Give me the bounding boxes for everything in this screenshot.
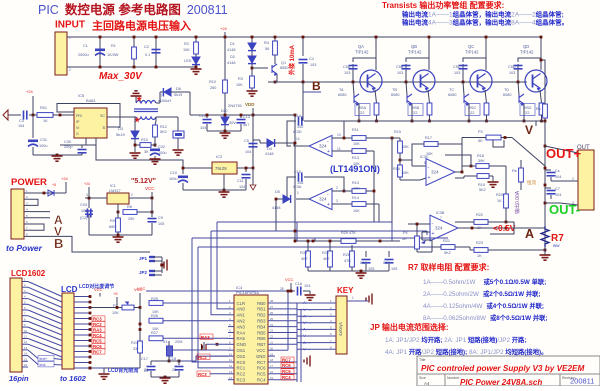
svg-text:10K: 10K [402, 171, 409, 175]
svg-text:C4: C4 [309, 57, 314, 61]
svg-text:TC: TC [449, 88, 454, 92]
capacitor C5C [462, 64, 464, 82]
svg-text:+: + [327, 149, 330, 155]
svg-text:TB: TB [392, 88, 397, 92]
resistor R8 250 [117, 204, 119, 212]
capacitor C3 [8, 114, 21, 116]
resistor R23 1K [474, 248, 488, 253]
svg-text:26: 26 [270, 311, 274, 315]
svg-text:105: 105 [368, 267, 374, 271]
svg-text:10K: 10K [353, 209, 360, 213]
resistor R19 5K2 [455, 177, 464, 179]
svg-text:INPUT: INPUT [55, 20, 85, 31]
resistor R13 10K [352, 149, 366, 154]
capacitor C7 104 [545, 187, 551, 189]
svg-text:PIC数控电源 参考电路图200811: PIC数控电源 参考电路图200811 [38, 2, 228, 17]
svg-text:104: 104 [555, 193, 561, 197]
svg-text:RC3: RC3 [237, 378, 246, 383]
wire output column [544, 121, 546, 255]
svg-text:Number: Number [447, 376, 460, 380]
svg-text:14: 14 [24, 352, 28, 356]
wire stub below B [302, 82, 304, 92]
label RC3 net [197, 371, 210, 377]
wire PIC right vertical bus [296, 303, 298, 382]
svg-text:12: 12 [229, 364, 233, 368]
resistor R21 5K2 [441, 245, 455, 250]
svg-text:3K: 3K [144, 150, 149, 154]
title block frame [417, 356, 600, 386]
svg-text:RC5: RC5 [93, 339, 102, 344]
svg-text:IC3C: IC3C [420, 155, 429, 159]
svg-text:1: 1 [352, 296, 354, 300]
svg-text:IP: IP [76, 120, 80, 124]
svg-text:R10: R10 [141, 138, 148, 142]
svg-text:PIC Power 24V8A.sch: PIC Power 24V8A.sch [460, 378, 542, 386]
resistor Rs sense [519, 168, 524, 182]
svg-text:A+→: A+→ [303, 313, 312, 318]
svg-text:LCD1602: LCD1602 [11, 269, 46, 278]
svg-text:D1: D1 [230, 42, 235, 46]
svg-text:200811: 200811 [570, 377, 594, 386]
svg-text:R13: R13 [352, 181, 359, 185]
svg-text:10K: 10K [353, 187, 360, 191]
wire A node [490, 222, 514, 234]
svg-text:R01: R01 [40, 106, 47, 110]
svg-text:C9: C9 [158, 216, 163, 220]
wire lcd bottom [74, 367, 104, 369]
ground transformer top [135, 96, 137, 102]
capacitor C14 feedback [287, 121, 296, 146]
svg-text:260: 260 [210, 86, 216, 90]
resistor R30 4K7 [306, 251, 311, 267]
svg-text:C31: C31 [40, 138, 47, 142]
svg-text:VI: VI [76, 126, 79, 130]
svg-text:RC5: RC5 [257, 372, 266, 377]
bus wire 4 [198, 246, 456, 248]
svg-text:25: 25 [270, 317, 274, 321]
svg-text:4148: 4148 [227, 61, 235, 65]
svg-text:104: 104 [304, 284, 310, 288]
svg-text:+: + [327, 202, 330, 208]
svg-text:10K: 10K [183, 48, 190, 52]
svg-text:RC1: RC1 [237, 366, 246, 371]
diode D5 output [296, 198, 309, 200]
svg-text:5K2: 5K2 [444, 251, 451, 255]
svg-text:RC2: RC2 [237, 372, 246, 377]
svg-text:C16: C16 [295, 282, 302, 286]
diode D1 4148 [251, 37, 253, 43]
svg-text:RB4: RB4 [257, 324, 266, 329]
capacitor C4 [302, 37, 304, 56]
capacitor small ra3 [203, 342, 205, 350]
wires PIC rc pins [275, 361, 297, 363]
capacitor C18 [178, 361, 180, 365]
svg-text:IC5: IC5 [78, 93, 85, 98]
resistor R14 10K [352, 202, 366, 207]
svg-text:106: 106 [81, 209, 87, 213]
svg-text:102: 102 [297, 125, 303, 129]
svg-text:RC6: RC6 [282, 363, 291, 368]
svg-text:C5D: C5D [508, 65, 516, 69]
svg-text:2: 2 [131, 193, 133, 197]
svg-text:OS2: OS2 [237, 354, 246, 359]
svg-text:AN2: AN2 [237, 319, 246, 324]
svg-text:输出电流1A——1组晶体管，输出电流2A——2组晶体管;: 输出电流1A——1组晶体管，输出电流2A——2组晶体管; [402, 10, 564, 19]
svg-text:C14: C14 [294, 114, 301, 118]
svg-text:6080: 6080 [391, 93, 399, 97]
svg-text:C10: C10 [170, 171, 177, 175]
svg-text:22: 22 [270, 335, 274, 339]
svg-text:C19: C19 [360, 261, 367, 265]
svg-text:22: 22 [144, 368, 148, 372]
svg-text:+5: +5 [113, 291, 118, 296]
capacitor C20 [388, 251, 390, 257]
transistor QA TIP142 [375, 37, 377, 70]
svg-text:2000u: 2000u [78, 53, 89, 57]
svg-text:103: 103 [310, 63, 316, 67]
svg-text:RC7: RC7 [257, 360, 266, 365]
svg-text:RC4: RC4 [93, 333, 102, 338]
resistor R28 47K [350, 251, 355, 267]
svg-text:R9: R9 [110, 219, 115, 223]
svg-text:V-→: V-→ [303, 346, 311, 351]
svg-text:C13: C13 [243, 115, 250, 119]
svg-text:VDD: VDD [245, 102, 255, 107]
input arrow left [3, 110, 8, 120]
svg-text:104: 104 [245, 150, 251, 154]
svg-text:B: B [54, 236, 63, 251]
svg-text:V+←: V+← [303, 307, 312, 312]
svg-text:R8: R8 [127, 205, 132, 209]
ground key right [366, 294, 372, 305]
svg-text:C11: C11 [237, 179, 244, 183]
svg-text:RC2: RC2 [198, 355, 207, 360]
wire bottom input rail [67, 66, 196, 68]
svg-text:KEY: KEY [337, 286, 354, 295]
wire left column from B [302, 92, 304, 121]
capacitor C16 pic [298, 287, 301, 296]
svg-text:D5: D5 [275, 190, 280, 194]
svg-text:"5.12V": "5.12V" [131, 178, 156, 185]
capacitor Cs 104 [545, 169, 551, 171]
svg-text:Rs: Rs [512, 169, 517, 173]
svg-text:1K: 1K [497, 199, 502, 203]
svg-text:C2: C2 [144, 45, 149, 49]
svg-text:103: 103 [397, 71, 403, 75]
resistor R7 zigzag [541, 226, 549, 247]
svg-text:5K: 5K [478, 139, 483, 143]
svg-text:VCC: VCC [285, 277, 294, 282]
ground output [540, 255, 551, 260]
capacitor C03 input [88, 198, 90, 208]
resistor R12 5K2 [155, 117, 157, 121]
svg-text:RB6: RB6 [257, 336, 266, 341]
svg-text:JP1: JP1 [139, 256, 148, 261]
svg-text:12: 12 [24, 340, 28, 344]
svg-text:P3: P3 [478, 130, 483, 134]
svg-text:C7: C7 [555, 187, 560, 191]
svg-text:2: 2 [69, 68, 71, 72]
svg-text:13: 13 [24, 346, 28, 350]
wire zener ground bus [207, 130, 241, 132]
svg-text:QD: QD [523, 44, 529, 49]
capacitor C02 100u [154, 137, 156, 147]
ground IC5 section [56, 154, 59, 157]
svg-text:R21: R21 [443, 239, 450, 243]
ground lcd [99, 374, 110, 379]
svg-text:324: 324 [435, 226, 443, 231]
transformer T1 [134, 101, 158, 120]
wire LM317 in/out [85, 197, 107, 199]
resistor R01 horizontal [29, 114, 37, 116]
svg-text:C5A: C5A [343, 65, 351, 69]
svg-text:1A: JP1/JP2 均开路; 2A: JP1 短路(接地: 1A: JP1/JP2 均开路; 2A: JP1 短路(接地)/JP2 开路; [385, 335, 526, 344]
wire transformer primary [107, 116, 136, 118]
svg-text:11: 11 [24, 335, 27, 339]
svg-text:B: B [312, 79, 321, 93]
svg-text:1K: 1K [477, 226, 482, 230]
svg-text:5K: 5K [402, 237, 407, 241]
svg-text:1K: 1K [43, 119, 48, 123]
svg-text:R16: R16 [393, 167, 400, 171]
svg-text:8A——0.0625ohm/8W或8个0.5Ω/1W 并联;: 8A——0.0625ohm/8W或8个0.5Ω/1W 并联; [423, 313, 548, 322]
connector to1602 [62, 293, 74, 369]
LED D-LED [195, 54, 197, 57]
svg-text:47K: 47K [344, 259, 351, 263]
svg-text:SC: SC [100, 114, 105, 118]
svg-text:A-→: A-→ [303, 340, 311, 345]
resistor R3 [250, 76, 255, 88]
svg-text:+24: +24 [61, 176, 69, 181]
ground zener row [220, 133, 231, 138]
svg-text:R2: R2 [184, 42, 189, 46]
svg-text:CLR: CLR [237, 301, 246, 306]
svg-text:2: 2 [336, 186, 338, 190]
svg-text:ww: ww [553, 243, 560, 248]
svg-text:12: 12 [337, 147, 341, 151]
svg-text:21: 21 [270, 341, 274, 345]
svg-text:RB0: RB0 [257, 301, 266, 306]
connector KEY 8pin [336, 296, 347, 354]
svg-text:104: 104 [555, 175, 561, 179]
wires LCD fan [22, 281, 28, 283]
ground D3 [130, 153, 141, 158]
svg-text:C12: C12 [199, 114, 206, 118]
svg-text:RC4: RC4 [257, 378, 266, 383]
svg-text:30V: 30V [229, 121, 236, 125]
svg-text:23: 23 [270, 329, 274, 333]
svg-text:GND: GND [237, 342, 247, 347]
svg-text:A: A [525, 227, 534, 241]
wire IC3C output [455, 171, 462, 173]
svg-text:105: 105 [391, 267, 397, 271]
wire R11 input feed [351, 190, 353, 192]
svg-text:A-←: A-← [303, 327, 311, 332]
port VSS arrow [252, 168, 254, 185]
resistor R11 10K [352, 136, 366, 141]
svg-text:R30: R30 [300, 251, 307, 255]
svg-text:+24: +24 [220, 26, 228, 31]
svg-text:13: 13 [229, 370, 233, 374]
svg-text:20: 20 [270, 346, 274, 350]
svg-text:RC4: RC4 [282, 375, 291, 380]
svg-text:16: 16 [270, 370, 274, 374]
capacitor C15 [287, 177, 296, 199]
labels led+/led- [38, 356, 54, 361]
svg-text:QB: QB [411, 44, 417, 49]
svg-text:V: V [525, 123, 533, 137]
svg-text:QC: QC [468, 44, 474, 49]
ground R19 [488, 182, 499, 187]
svg-text:OUT+: OUT+ [546, 146, 581, 161]
IC5 MC34063 box [74, 108, 107, 138]
svg-text:TIP142: TIP142 [465, 50, 479, 55]
svg-text:RB3: RB3 [257, 319, 266, 324]
svg-text:PIC controled power Supply V3: PIC controled power Supply V3 by VE2EM [421, 364, 585, 373]
svg-text:4u7: 4u7 [243, 123, 249, 127]
connector 16pin [10, 278, 22, 372]
wire ground bus smps [33, 154, 82, 156]
wire vcc row pic [152, 290, 295, 292]
wire base drive rail [268, 81, 527, 83]
svg-text:10: 10 [24, 329, 28, 333]
svg-text:RC6: RC6 [93, 344, 102, 349]
resistor RSA 22 [375, 90, 377, 103]
wires LCD right rows [74, 296, 90, 298]
svg-text:R12: R12 [160, 125, 167, 129]
wire lcd bus right [139, 308, 141, 342]
svg-text:5k19: 5k19 [116, 132, 125, 137]
svg-text:AN0: AN0 [237, 307, 246, 312]
resistor RSB 22 [428, 90, 430, 103]
svg-text:AN1: AN1 [237, 313, 246, 318]
resistor R17 10K feedback [424, 142, 438, 147]
svg-text:R26: R26 [151, 314, 158, 318]
svg-text:3: 3 [86, 193, 88, 197]
svg-text:R19: R19 [478, 183, 485, 187]
svg-text:105: 105 [158, 222, 164, 226]
capacitor C10 100u [182, 168, 184, 174]
diode pol arrow [48, 190, 54, 196]
svg-text:Max_30V: Max_30V [99, 71, 143, 82]
wire IC3D inputs [332, 137, 352, 139]
svg-text:R4: R4 [264, 41, 269, 45]
svg-text:输出0.00A: 输出0.00A [514, 190, 521, 214]
wire zener row horizontal [190, 114, 295, 116]
svg-text:2N4751: 2N4751 [228, 103, 243, 108]
label RC2 net [197, 354, 210, 360]
IC2 79L05 box [212, 162, 237, 174]
svg-text:28: 28 [280, 287, 284, 291]
svg-text:+24: +24 [84, 182, 90, 186]
wire V node drop [535, 121, 537, 126]
transistor Q1 8550 [274, 55, 276, 64]
svg-text:103: 103 [509, 71, 515, 75]
svg-text:4xKeys: 4xKeys [338, 322, 343, 336]
svg-text:R3: R3 [238, 77, 243, 81]
svg-text:324: 324 [319, 144, 327, 149]
resistor R4 [274, 37, 276, 41]
svg-text:AN3: AN3 [237, 324, 246, 329]
svg-text:RC3: RC3 [198, 372, 207, 377]
svg-text:RA5: RA5 [237, 336, 246, 341]
wire smps to 79L05 rail [96, 145, 183, 168]
svg-text:TIP142: TIP142 [408, 50, 422, 55]
svg-text:R14: R14 [352, 196, 359, 200]
svg-text:R31: R31 [322, 251, 329, 255]
svg-text:RC6: RC6 [257, 366, 266, 371]
svg-text:22: 22 [470, 110, 475, 115]
ground sense row [356, 273, 367, 278]
svg-text:C3: C3 [19, 119, 24, 123]
ground under R3 [251, 88, 253, 91]
svg-text:+: + [428, 175, 431, 181]
svg-text:11: 11 [229, 358, 232, 362]
svg-text:RA4: RA4 [237, 330, 246, 335]
svg-text:39K: 39K [478, 159, 485, 163]
svg-text:18: 18 [270, 358, 274, 362]
ground C02 [150, 159, 161, 164]
resistor R31 4K7 [328, 251, 333, 267]
ground 79L05 [219, 192, 230, 197]
svg-text:20M: 20M [175, 340, 182, 344]
wire vertical x374 [373, 151, 375, 222]
opto U2 box [156, 116, 178, 118]
svg-text:RC2: RC2 [93, 322, 102, 327]
svg-text:10K: 10K [353, 142, 360, 146]
wire +24 vertical to zener row [224, 37, 226, 115]
svg-text:D3: D3 [118, 126, 124, 131]
transistor QD TIP142 [540, 37, 542, 70]
connector POWER 8pin [11, 189, 24, 239]
svg-text:6080: 6080 [338, 93, 346, 97]
svg-text:C03: C03 [80, 203, 87, 207]
svg-text:R10: R10 [209, 80, 216, 84]
ground crystal [151, 376, 179, 378]
svg-text:100u: 100u [39, 144, 47, 148]
svg-text:104: 104 [239, 185, 245, 189]
capacitor C11 output [237, 167, 253, 169]
svg-text:1K/0W: 1K/0W [107, 53, 119, 57]
resistor RSC 22 [485, 90, 487, 103]
svg-text:JP2: JP2 [139, 270, 148, 275]
svg-text:16: 16 [24, 363, 28, 367]
ground for LED [195, 66, 198, 69]
svg-text:R17: R17 [425, 136, 432, 140]
svg-text:103: 103 [454, 71, 460, 75]
svg-text:100u: 100u [169, 177, 177, 181]
svg-text:5k19: 5k19 [174, 93, 182, 97]
svg-text:C5C: C5C [453, 65, 461, 69]
svg-text:15: 15 [24, 357, 28, 361]
wire PIC vcc pin [275, 349, 288, 351]
svg-text:RC5: RC5 [282, 369, 291, 374]
svg-text:+5: +5 [52, 183, 56, 187]
svg-text:100u: 100u [158, 151, 166, 155]
capacitor C30 200p [81, 145, 83, 148]
svg-text:104: 104 [18, 124, 24, 128]
svg-text:R28: R28 [343, 253, 350, 257]
svg-text:22: 22 [172, 368, 176, 372]
svg-text:RB1: RB1 [257, 307, 266, 312]
svg-text:TIP142: TIP142 [355, 50, 369, 55]
svg-text:RA3: RA3 [201, 335, 210, 340]
svg-text:QA: QA [358, 44, 364, 49]
wires power pins right [30, 199, 38, 205]
svg-text:VCC: VCC [145, 186, 155, 191]
wire power pin1 [30, 192, 66, 194]
svg-text:RC7: RC7 [93, 350, 102, 355]
